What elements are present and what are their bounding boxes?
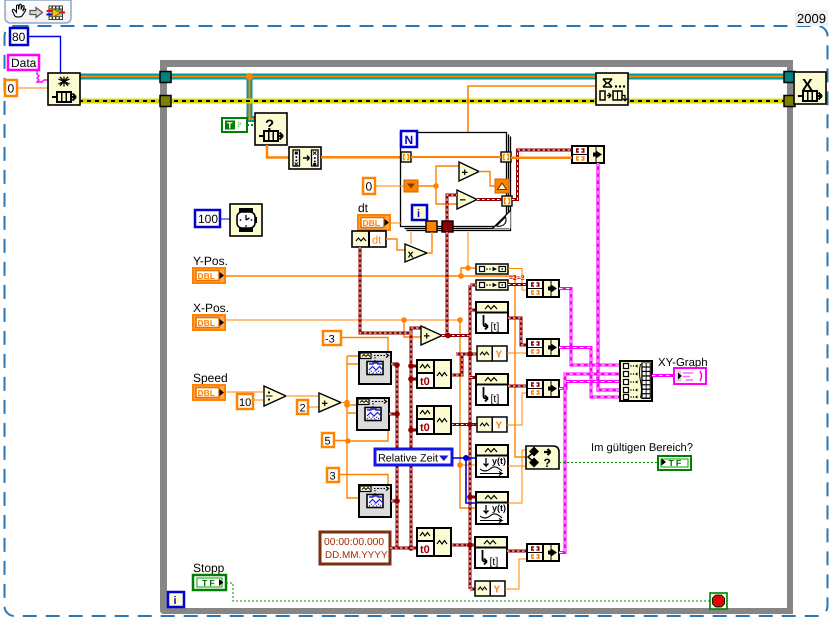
svg-text:2: 2 — [300, 403, 306, 415]
wire: Data string squiggle — [37, 70, 48, 82]
wire: Stopp to loop stop terminal — [226, 583, 710, 601]
wire: divide to add — [286, 395, 319, 397]
svg-text:Y-Pos.: Y-Pos. — [193, 254, 228, 268]
orange trunk x347 — [347, 356, 359, 498]
svg-text:x: x — [408, 249, 415, 261]
Stopp boolean control — [193, 575, 226, 590]
while loop frame — [160, 60, 793, 614]
svg-text:i: i — [417, 208, 420, 220]
toolbar hand icon — [12, 4, 26, 17]
toolbar box — [5, 0, 71, 23]
wire: Y-Pos long wire to in-range trunk — [225, 276, 526, 457]
2009 version label — [795, 10, 828, 26]
wire: scale A out orange to B1 lower input — [508, 269, 528, 291]
wire: wave-Y-b out up to B3 lower — [507, 393, 527, 425]
svg-text:2009: 2009 — [797, 11, 826, 26]
stub: grey2 out to x397 — [389, 413, 397, 416]
wire: in-range out to TF indicator — [559, 462, 658, 464]
wire: scale A branch up to for loop bottom — [467, 232, 469, 268]
wire: waveform tunnel up to subtract (inside loop) — [447, 195, 457, 221]
bundle B3 — [527, 380, 559, 397]
y(t) icon 1 — [476, 445, 508, 477]
release queue icon — [794, 72, 826, 104]
red trunk x397: grey outputs — [391, 364, 411, 548]
while loop stop terminal — [710, 593, 727, 609]
dequeue element icon — [255, 113, 287, 145]
wire: add out to right shift register — [479, 172, 495, 187]
constant 0 (queue) — [5, 80, 17, 96]
t0 builder icon 1 — [417, 360, 451, 388]
stub: x468 to wave-t1 input — [470, 309, 476, 312]
stub: x411 to t0-1 wave input — [411, 365, 417, 368]
red trunk x411 down to t0 icons — [410, 333, 413, 548]
wire: lower tunnel to B0 top input (waveform) — [512, 150, 572, 200]
svg-text:0: 0 — [8, 82, 15, 96]
svg-text:Im gültigen Bereich?: Im gültigen Bereich? — [591, 442, 693, 454]
svg-text:3: 3 — [330, 471, 336, 483]
for loop frame — [401, 133, 511, 231]
Speed DBL control — [193, 385, 225, 400]
wire: B1 out magenta to build-xy row1 — [559, 289, 620, 366]
svg-text:−: − — [460, 195, 466, 207]
add function (speed) — [319, 393, 341, 412]
svg-text:TF: TF — [202, 578, 217, 588]
wire: array inside for loop — [411, 156, 501, 158]
svg-text:dt: dt — [372, 235, 381, 247]
wire: reverse array to for loop left tunnel — [321, 156, 402, 159]
constant 80 — [10, 28, 28, 45]
svg-text:DBL: DBL — [363, 218, 380, 228]
wave-t icon 2 — [476, 374, 508, 405]
svg-text:Relative Zeit: Relative Zeit — [378, 453, 438, 465]
boolean true constant TF — [222, 118, 247, 132]
svg-text:DD.MM.YYYY: DD.MM.YYYY — [325, 550, 388, 561]
stub: x468 to y(t)2 input — [470, 496, 476, 499]
wire: B2 out magenta to build-xy row5 — [559, 348, 620, 398]
wire: timestamp to t0-3 — [390, 547, 411, 550]
wire: B4 out magenta up to build-xy row2 — [559, 374, 620, 553]
add function (position) — [421, 326, 442, 345]
wire: y(t)1 out to in-range lower — [508, 465, 526, 467]
grey express icon 2 — [357, 398, 389, 430]
wire: queue refnum branch down to dequeue — [250, 76, 256, 119]
svg-text:100: 100 — [198, 212, 218, 226]
wire: enum branch down to y(t)2 — [466, 458, 476, 503]
svg-text:0: 0 — [366, 180, 373, 194]
stub: x468 to wave-Y-c — [470, 588, 475, 591]
wire: scale B red input from x449 trunk — [470, 284, 476, 287]
wire: dt DBL to loop edge — [390, 222, 402, 224]
wire: B3 out magenta to build-xy row3 — [559, 382, 620, 389]
constant 0 (shift register init) — [363, 178, 375, 194]
right shift register — [495, 179, 509, 193]
add function in for loop — [459, 162, 479, 181]
constant 2 — [297, 400, 308, 414]
svg-text:dt: dt — [358, 201, 369, 215]
dt DBL control — [358, 215, 390, 230]
wire: trunk stubs to grey icon 2 — [347, 405, 357, 413]
wire: y(t)2 out up to in-range upper — [508, 450, 526, 503]
for loop N terminal — [401, 131, 417, 147]
obtain queue icon — [48, 73, 80, 105]
wire: count wire to enqueue — [468, 86, 597, 132]
svg-text:T: T — [227, 121, 233, 131]
bundle B4 — [527, 544, 559, 561]
wire: -3 to grey icon1 top — [341, 338, 388, 353]
svg-text:+: + — [462, 167, 468, 179]
wire: queue refnum left segment (outside loop) — [79, 74, 162, 80]
wire: wave-Y-c out up to B4 lower — [505, 559, 527, 589]
subtract function in for loop — [457, 190, 477, 209]
wire: 10 to divide — [253, 399, 264, 401]
wire: orange from loop bottom to multiply — [410, 232, 412, 244]
svg-text:i: i — [174, 595, 177, 607]
wire: add out junction to red trunk x468 — [442, 334, 470, 337]
svg-text:-3: -3 — [325, 334, 335, 346]
tunnel: error right — [784, 96, 795, 107]
wire: error cluster inside loop — [166, 99, 790, 104]
constant 5 — [322, 433, 334, 447]
left shift register — [404, 180, 418, 192]
wire: orange trunk x460 down to y(t) icons — [460, 320, 476, 508]
scale icon A — [476, 264, 508, 274]
svg-text:?: ? — [544, 456, 551, 470]
wire: bracket jog into add upper input — [411, 328, 424, 333]
for loop right lower tunnel — [502, 196, 512, 206]
wave-t icon 3 — [475, 537, 507, 568]
svg-text:+: + — [424, 331, 430, 343]
wire: error cluster to release icon — [790, 99, 797, 104]
Relative Zeit enum — [375, 449, 452, 465]
divide function — [264, 386, 286, 406]
tunnel: orange bottom of for loop — [426, 221, 437, 232]
tunnel: queue refnum left — [160, 72, 171, 83]
constant 100 — [195, 210, 220, 227]
build waveform dt icon — [352, 231, 386, 247]
wire: TF to dequeue (dotted green) — [247, 124, 255, 126]
Y-Pos DBL control — [193, 268, 225, 283]
wire: waveform tunnel trunk x449 down — [446, 232, 449, 334]
constant -3 — [323, 331, 341, 345]
wire: dt builder to multiply — [386, 239, 405, 250]
while loop i terminal — [168, 592, 184, 607]
wave-Y icon b — [477, 417, 507, 432]
wire: multiply out up to orange tunnel — [427, 232, 432, 253]
in range and coerce icon — [526, 446, 559, 470]
stub: x411 to t0-2 input — [411, 429, 417, 432]
wire: 0 to left shift register — [375, 185, 404, 187]
wire: wave-t1 out down to B2 upper — [508, 318, 527, 345]
wave-Y icon a — [477, 346, 507, 361]
svg-text:TF: TF — [669, 458, 684, 468]
toolbar VI icon — [47, 6, 66, 21]
toolbar arrow icon — [30, 8, 43, 18]
for loop right upper tunnel — [501, 152, 511, 162]
wire: Y-Pos jog to scale A — [461, 268, 476, 276]
timestamp constant — [320, 532, 390, 564]
enqueue element icon — [596, 73, 628, 105]
tunnel: error left — [160, 96, 171, 107]
svg-text:80: 80 — [12, 30, 26, 44]
wire: X-Pos to y(t) trunk — [225, 319, 460, 321]
svg-text:+: + — [322, 398, 328, 410]
stub: grey3 out to x397 — [391, 500, 397, 503]
svg-text:10: 10 — [239, 397, 251, 409]
svg-text:DBL: DBL — [198, 388, 215, 398]
wire: 0 to obtain queue — [17, 87, 48, 89]
wire: dt waveform drop x360 and crossbar y333 — [360, 247, 409, 333]
for loop left tunnel — [401, 152, 411, 162]
svg-text:DBL: DBL — [198, 271, 215, 281]
wire: dequeue out to reverse array — [267, 145, 289, 158]
wire: scale B out red to B1 upper input — [508, 283, 527, 286]
tunnel: waveform bottom of for loop — [442, 221, 453, 232]
wire: 100 to wait — [220, 218, 230, 220]
wire: 80 to obtain queue — [28, 37, 61, 74]
wave-t icon 1 — [476, 302, 508, 333]
svg-text:00:00:00.000: 00:00:00.000 — [324, 537, 384, 548]
y(t) icon 2 — [476, 492, 508, 524]
wires inside for loop from shift register — [418, 166, 459, 204]
wire: build-xy out to XY indicator — [652, 374, 674, 377]
svg-text:Data: Data — [11, 56, 37, 70]
wire: wave-Y-a out to B2 lower — [507, 352, 527, 354]
stub: x411 to t0-1 t0 input — [411, 378, 417, 381]
wire: 3 to grey icon3 top — [339, 475, 388, 486]
wait ms icon — [230, 204, 262, 236]
stub: x470 to wave-t2 input — [470, 376, 476, 379]
red trunk x468: icon column — [469, 285, 472, 589]
for loop i terminal — [412, 205, 427, 220]
stub: x468 to wave-t3 input and t0-3 out — [451, 544, 475, 547]
X-Pos DBL control — [193, 315, 225, 330]
t0 builder icon 3 — [417, 528, 451, 556]
wire: enum to y(t)1 — [452, 457, 476, 459]
wire: 2 to add — [308, 406, 319, 408]
wire: wave-t2 out to B3 upper — [508, 385, 527, 388]
svg-text:5: 5 — [325, 436, 331, 448]
wire: trunk stubs to grey icon 1 — [347, 356, 359, 364]
grey express icon 1 — [359, 352, 391, 384]
wire: t0-1 out up to junction and wave-Y-a — [451, 354, 477, 375]
wire: upper tunnel to B0 bottom input (orange) — [511, 156, 572, 159]
svg-text:Speed: Speed — [193, 371, 228, 385]
svg-text:DBL: DBL — [198, 318, 215, 328]
stub: x468 to wave-Y-b — [451, 423, 477, 426]
wire: B0 out magenta trunk down to build-xy row4 — [598, 155, 620, 391]
TF indicator — [658, 456, 691, 470]
junction t0-3 — [408, 545, 414, 551]
t0 builder icon 2 — [417, 406, 451, 434]
wire: trunk branch to y(t)1 lower input — [460, 464, 476, 466]
constant 10 — [237, 394, 253, 409]
build XY graph icon — [620, 361, 652, 401]
wire: subtract out to right lower tunnel — [477, 198, 502, 201]
wire: queue refnum inside loop — [166, 74, 790, 80]
wire: error cluster outside left — [79, 99, 162, 104]
grey express icon 3 — [359, 485, 391, 517]
svg-text:Stopp: Stopp — [193, 561, 225, 575]
tunnel: queue refnum right — [784, 72, 795, 83]
bundle B1 — [527, 280, 559, 297]
wire: 5 to trunk and grey2 bottom — [334, 430, 388, 441]
junction on queue wire — [246, 73, 253, 80]
bundle B2 — [527, 339, 559, 356]
wire: Speed to divide — [225, 391, 264, 393]
constant 3 — [327, 468, 339, 482]
wire: wave-t3 out to B4 upper — [507, 550, 527, 553]
wave-Y icon c — [475, 581, 505, 596]
constant Data (string) — [8, 55, 39, 70]
multiply function (dt) — [405, 244, 427, 262]
bundle waveform B0 (top right) — [572, 146, 604, 163]
reverse 1D array icon — [289, 147, 321, 169]
scale icon B — [476, 280, 508, 290]
svg-text:X-Pos.: X-Pos. — [193, 301, 229, 315]
wire: X-Pos branch down to add lower input — [404, 320, 421, 337]
wire: add out to orange trunk x347 — [341, 402, 347, 404]
XY-Graph indicator — [674, 368, 706, 384]
wire: queue refnum to release icon — [790, 74, 797, 80]
svg-text:N: N — [405, 133, 414, 147]
